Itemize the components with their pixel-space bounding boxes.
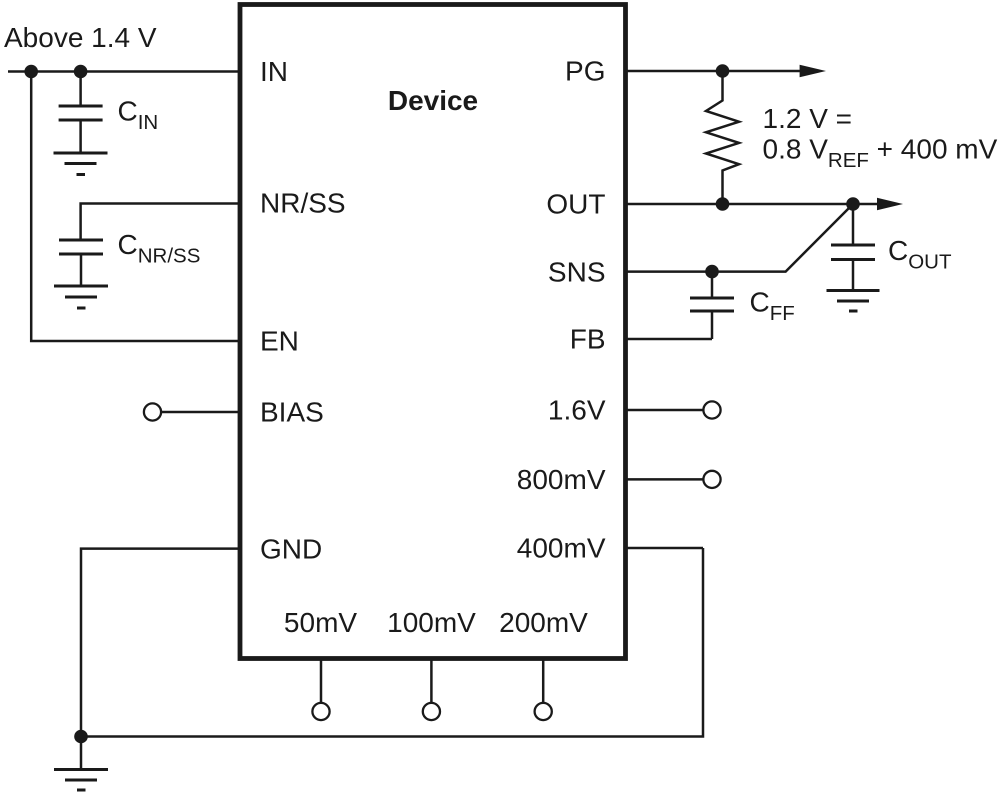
wire FB xyxy=(626,338,713,341)
svg-text:400mV: 400mV xyxy=(517,533,606,564)
pin stub 50mV xyxy=(320,659,323,704)
svg-text:PG: PG xyxy=(565,56,605,87)
junction node ground bus xyxy=(74,730,88,744)
arrow PG output xyxy=(800,65,826,77)
svg-text:SNS: SNS xyxy=(548,256,606,287)
svg-text:NR/SS: NR/SS xyxy=(260,188,346,219)
pin label OUT xyxy=(546,189,605,220)
svg-text:Above 1.4 V: Above 1.4 V xyxy=(4,22,157,53)
net label Above 1.4 V xyxy=(4,22,157,53)
terminal circle 100mV xyxy=(423,703,440,720)
value label CNR/SS xyxy=(118,229,201,268)
junction node EN branch xyxy=(24,65,38,79)
svg-text:200mV: 200mV xyxy=(499,607,588,638)
svg-text:100mV: 100mV xyxy=(387,607,476,638)
capacitor CNR/SS xyxy=(59,240,103,286)
wire GND xyxy=(81,549,240,737)
pin label PG xyxy=(565,56,605,87)
resistor R1 pull-up xyxy=(706,71,739,204)
pin label FB xyxy=(570,324,606,355)
ground main xyxy=(54,737,108,791)
wire PG xyxy=(626,70,802,73)
terminal circle 200mV xyxy=(535,703,552,720)
pin label SNS xyxy=(548,256,606,287)
pin stub 100mV xyxy=(430,659,433,704)
pin label 800mV xyxy=(517,464,606,495)
capacitor CIN xyxy=(59,72,103,154)
capacitor CFF xyxy=(690,272,734,339)
svg-text:1.6V: 1.6V xyxy=(548,395,606,426)
terminal circle 1.6V xyxy=(703,401,720,418)
wire OUT xyxy=(626,203,879,206)
wire 800mV xyxy=(626,478,704,481)
ground under CIN xyxy=(54,153,108,175)
svg-text:OUT: OUT xyxy=(546,189,605,220)
svg-text:1.2 V =: 1.2 V = xyxy=(763,103,853,134)
pin label 50mV xyxy=(284,607,357,638)
terminal circle 800mV xyxy=(703,471,720,488)
svg-text:800mV: 800mV xyxy=(517,464,606,495)
wire bottom ground bus xyxy=(81,548,703,737)
wire BIAS xyxy=(161,411,240,414)
junction node PG/resistor xyxy=(716,64,730,78)
wire EN xyxy=(31,72,240,342)
wire SNS with diagonal to OUT xyxy=(626,204,854,272)
capacitor COUT xyxy=(831,204,875,291)
pin stub 200mV xyxy=(542,659,545,704)
svg-text:GND: GND xyxy=(260,533,322,564)
arrow OUT output xyxy=(877,198,903,210)
value label 1.2V equation xyxy=(763,103,998,172)
wire NR/SS xyxy=(81,204,240,241)
value label CIN xyxy=(118,96,159,135)
pin label 1.6V xyxy=(548,395,606,426)
wire 1.6V xyxy=(626,409,704,412)
pin label BIAS xyxy=(260,397,324,428)
wire 400mV to ground bus xyxy=(626,547,704,550)
svg-text:Device: Device xyxy=(388,85,478,116)
pin label 200mV xyxy=(499,607,588,638)
value label COUT xyxy=(888,235,952,274)
wire IN input xyxy=(8,70,240,73)
svg-text:BIAS: BIAS xyxy=(260,397,324,428)
terminal circle BIAS xyxy=(144,403,161,420)
junction node OUT/resistor xyxy=(716,197,730,211)
svg-text:FB: FB xyxy=(570,324,606,355)
junction node OUT/SNS xyxy=(846,197,860,211)
svg-text:IN: IN xyxy=(260,56,288,87)
IC U1 Device box xyxy=(240,5,626,659)
terminal circle 50mV xyxy=(312,703,329,720)
ground under CNR/SS xyxy=(54,286,108,308)
junction node SNS/CFF xyxy=(705,265,719,279)
value label CFF xyxy=(750,287,795,326)
ground under COUT xyxy=(827,291,880,312)
pin label EN xyxy=(260,326,299,357)
pin label GND xyxy=(260,533,322,564)
junction node CIN branch xyxy=(74,65,88,79)
pin label 100mV xyxy=(387,607,476,638)
svg-text:EN: EN xyxy=(260,326,299,357)
svg-text:50mV: 50mV xyxy=(284,607,357,638)
pin label 400mV xyxy=(517,533,606,564)
pin label NR/SS xyxy=(260,188,346,219)
pin label IN xyxy=(260,56,288,87)
